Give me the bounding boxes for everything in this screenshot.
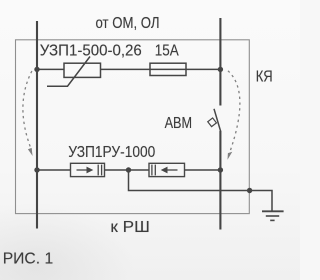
svg-text:УЗП1РУ-1000: УЗП1РУ-1000 [68,144,155,161]
wire earth run (down, right to box edge, to electrode) [129,170,273,211]
junction row2 left [34,167,39,172]
surge path arrow left (dashed) [23,71,33,156]
svg-text:КЯ: КЯ [256,69,273,86]
wire row1 middle and through fuse [101,68,221,70]
junction at box edge [247,188,252,193]
junction row2 middle [126,167,131,172]
wire row2 right segment [185,169,221,171]
svg-text:АВМ: АВМ [165,115,193,132]
wire row2 left segment [37,169,71,171]
enclosure box КЯ [16,40,250,214]
switch АВМ (automatic breaker) [208,109,221,131]
ground [262,211,284,220]
wire right bus lower [219,131,221,230]
svg-text:15А: 15А [155,43,179,60]
svg-text:РИС. 1: РИС. 1 [3,251,54,268]
junction row1 left [34,67,39,72]
arrester 1 УЗП1РУ-1000 [71,163,105,176]
fuse 15А [150,63,186,75]
wire left bus [36,21,38,229]
wire row2 middle segment [105,169,150,171]
junction row2 right [218,167,223,172]
svg-text:от ОМ, ОЛ: от ОМ, ОЛ [96,15,160,32]
surge path arrow right (dashed) [228,71,240,160]
wire right bus upper [219,18,221,106]
junction row1 right [218,67,223,72]
svg-text:к РШ: к РШ [110,219,150,236]
arrester 2 УЗП1РУ-1000 [149,163,185,176]
svg-text:УЗП1-500-0,26: УЗП1-500-0,26 [40,42,142,59]
wire row1 left segment [37,68,64,70]
varistor УЗП1-500-0,26 [47,57,101,87]
